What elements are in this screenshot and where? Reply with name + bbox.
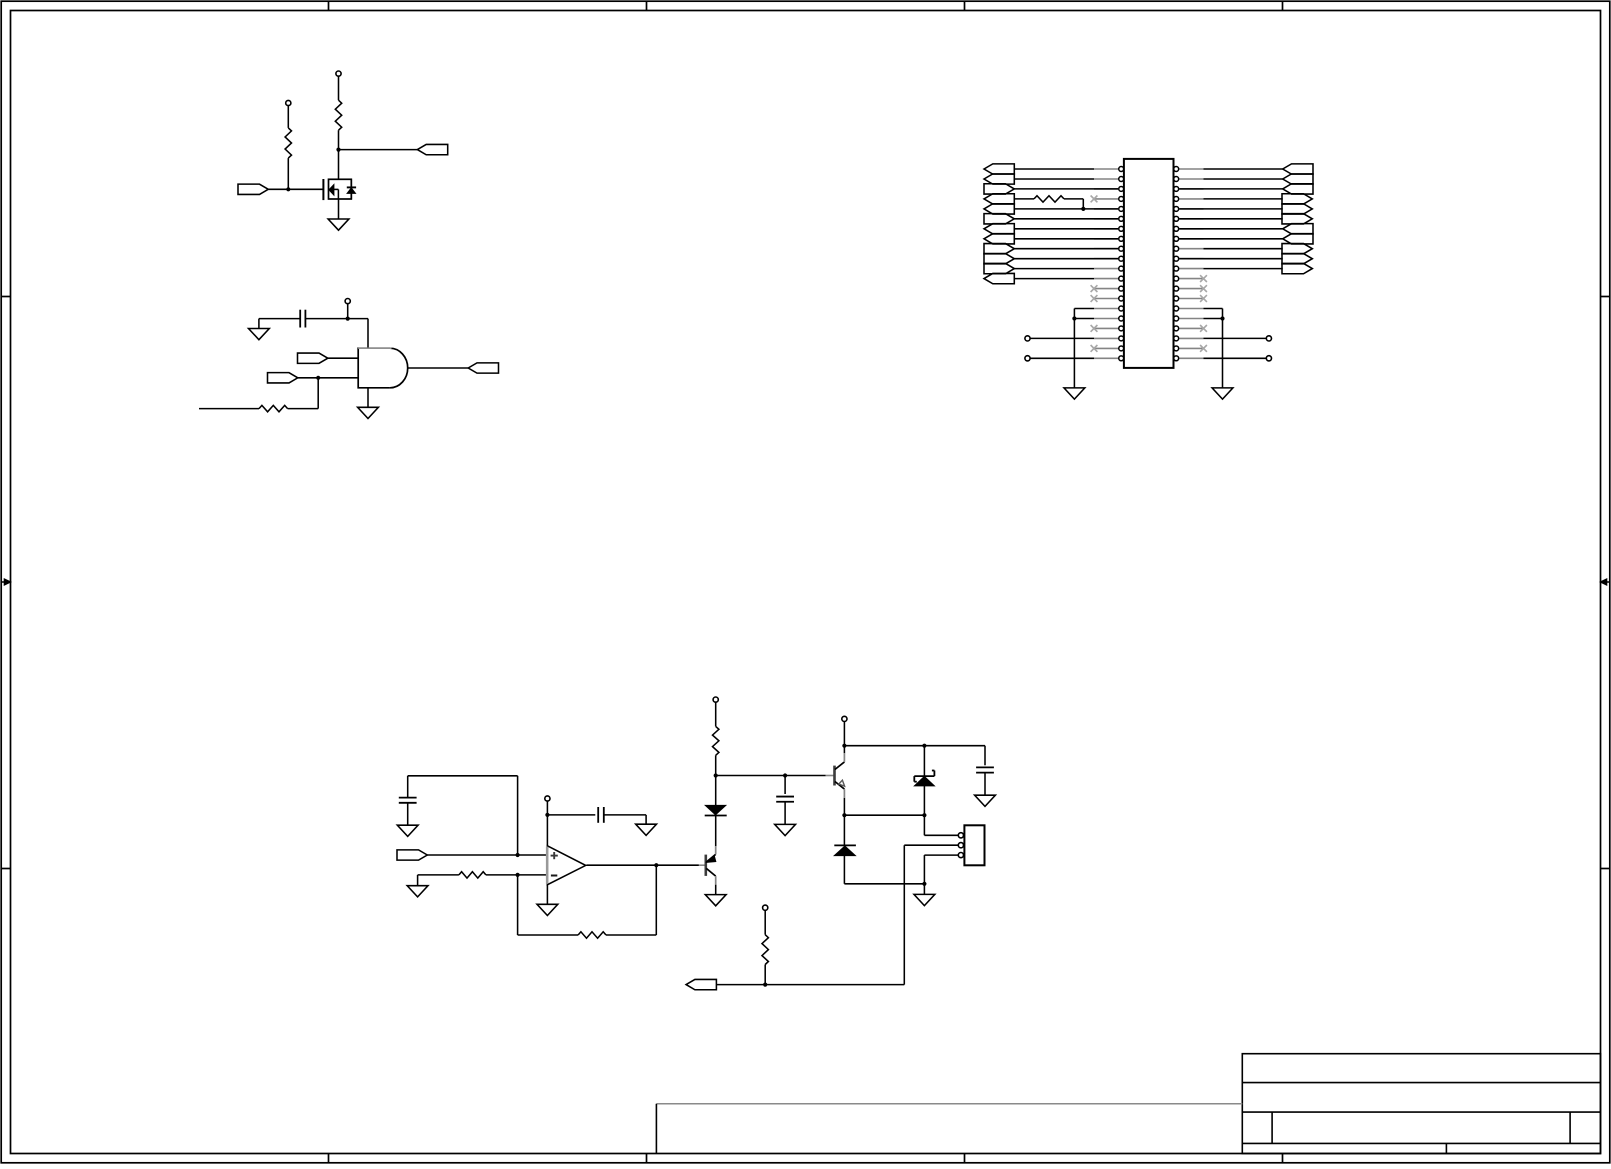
wire node E3 to node Z2 [844,814,924,816]
transistor Q1 source arrow [329,185,334,196]
wire left flag 1 to U2 [1014,168,1094,170]
wire left flag 10 to U2 [1014,258,1118,260]
power pin P3 [345,299,350,304]
node B2 junction [783,773,787,777]
U2 right pin 12 circle [1174,276,1179,281]
U2 right pin 9 circle [1174,246,1179,251]
wire node B1 to node B2 [716,775,785,777]
wire U1 output [408,367,469,369]
node left gnd rail junction [1072,316,1076,320]
wire right flag 3 to U2 [1179,188,1283,190]
right border mid arrow [1602,581,1610,583]
no-connect X left pin 19 [1091,345,1098,352]
right port flag row 8 [1283,234,1313,244]
wire J1 pin3 down [924,854,958,856]
top border zone tick 2 [646,1,648,10]
wire VIN to U3 +in [427,854,547,856]
transistor Q3 collector (up) [835,762,845,770]
U2 right pin 2 stub [1179,178,1203,180]
U2 left pin 19 circle [1119,346,1124,351]
U2 left pin 3 stub [1094,188,1118,190]
wire right flag 9 to U2 [1204,248,1283,250]
U2 right pin 18 stub [1179,337,1203,339]
U2 right pin 18 circle [1174,336,1179,341]
transistor Q1 body diode [350,179,352,187]
wire Q1 source to ground [338,199,340,219]
wire corner to R3 [288,408,319,410]
terminal T4 circle [1266,356,1271,361]
op-amp U3 plus sign [551,855,558,857]
title block outline [1242,1054,1600,1154]
U2 right pin 19 circle [1174,346,1179,351]
wire right flag 1 to U2 [1204,168,1283,170]
U2 right pin 4 circle [1174,196,1179,201]
ground GND4 (U2 left) [1064,388,1085,399]
transistor Q2 base stub [699,864,705,866]
U2 left pin 15 stub [1094,308,1118,310]
U2 right pin 7 stub [1179,228,1203,230]
U2 right pin 20 stub [1179,357,1203,359]
wire left flag 3 to U2 [1014,188,1118,190]
U2 right pin 14 stub [1179,298,1203,300]
ground GND10 [705,895,726,906]
right port flag row 10 [1282,254,1312,264]
transistor Q2 emitter (up) [706,854,716,862]
right port flag row 4 [1282,194,1312,204]
wire left flag 9 to U2 [1014,248,1118,250]
wire P7 to R8 [764,910,766,934]
wire P1 to R1 [338,76,340,100]
U2 left pin 18 stub [1094,337,1118,339]
transistor Q1 gate bar [322,179,324,200]
wire right flag 8 to U2 [1179,238,1283,240]
U2 right pin 3 stub [1179,188,1203,190]
transistor Q3 emitter (down) [835,782,845,790]
connector J1 pin3 circle [958,853,963,858]
U2 left pin 4 stub [1094,198,1118,200]
wire node DRAIN to Q1 drain [338,150,340,180]
wire C1 to node VDD3 [305,318,347,320]
U2 left pin 17 circle [1119,326,1124,331]
wire Q2 emitter to D1 [715,816,717,847]
IC U2 body [1124,159,1174,368]
wire U2 right pin 15 to gnd rail [1204,308,1223,310]
left port flag row 2 [984,174,1014,184]
resistor R4 [1034,196,1064,202]
wire D2 to node Z2 [923,786,925,815]
node E3 junction [842,813,846,817]
no-connect X left pin 13 [1091,285,1098,292]
capacitor C4 [776,796,794,798]
U2 left pin 2 stub [1094,178,1118,180]
U2 right pin 10 stub [1179,258,1203,260]
wire P5 to R7 [715,702,717,726]
U2 right pin 7 circle [1174,226,1179,231]
top border zone tick 3 [964,1,966,10]
U2 left pin 12 stub [1094,278,1118,280]
U2 right pin 8 stub [1179,238,1203,240]
no-connect X right pin 17 [1200,325,1207,332]
U2 left pin 2 circle [1119,177,1124,182]
U2 right pin 6 circle [1174,216,1179,221]
U2 left pin 14 circle [1119,296,1124,301]
wire left flag 8 to U2 [1014,238,1118,240]
top border zone tick 1 [328,1,330,10]
wire R1 to node DRAIN [338,130,340,149]
bottom port flag CTRL [686,979,716,989]
ground GND9 [537,904,558,915]
U2 left pin 15 circle [1119,306,1124,311]
U2 left pin 16 circle [1119,316,1124,321]
wire node IN2 down [317,378,319,409]
wire U3 power up [546,801,548,846]
no-connect X right pin 14 [1200,295,1207,302]
no-connect X left pin 17 [1091,325,1098,332]
right border zone tick 1 [1601,296,1610,298]
left port flag row 12 [984,273,1014,283]
U2 right pin 1 stub [1179,168,1203,170]
title block divider row1 [1242,1082,1600,1084]
wire node B2 to Q3 base [785,775,826,777]
capacitor C5 [976,766,994,768]
wire R4 to corner [1064,198,1083,200]
U2 left pin 19 stub [1094,347,1118,349]
node R4/row5 junction [1081,207,1085,211]
wire right flag 6 to U2 [1179,218,1283,220]
no-connect X right pin 19 [1200,345,1207,352]
node Z2 junction [922,813,926,817]
ground GND8 [636,824,657,835]
U2 right pin 2 circle [1174,177,1179,182]
right port flag row 3 [1283,184,1313,194]
power pin P6 [842,716,847,721]
left port flag row 9 [984,244,1014,254]
notes box left edge [655,1104,657,1154]
bottom border zone tick 1 [328,1154,330,1163]
U2 right pin 19 stub [1179,347,1203,349]
U2 left pin 12 circle [1119,276,1124,281]
node GATE junction [286,187,290,191]
wire C2 top to node INP [407,776,409,798]
transistor Q3 base stub [826,775,834,777]
node INP junction [516,853,520,857]
ground GND13 [914,894,935,905]
node VCC3 junction [545,813,549,817]
wire R7 to node B1 [715,755,717,775]
U2 right pin 16 stub [1179,318,1203,320]
node INN junction [516,873,520,877]
bottom border zone tick 3 [964,1154,966,1163]
wire U2 left pin 16 to gnd rail [1074,318,1094,320]
U2 left pin 6 circle [1119,216,1124,221]
left port flag row 4 [984,194,1014,204]
wire left flag 5 to U2 [1014,208,1118,210]
U2 left pin 5 circle [1119,206,1124,211]
U2 right pin 11 stub [1179,268,1203,270]
right port flag row 7 [1283,224,1313,234]
wire right flag 4 to U2 [1204,198,1283,200]
op-amp U3 minus sign [551,875,557,877]
wire U2 left pin 15 to gnd rail [1074,308,1094,310]
left border zone tick 1 [1,296,10,298]
no-connect X left pin 14 [1091,295,1098,302]
U2 left pin 5 stub [1094,208,1118,210]
U2 left pin 17 stub [1094,327,1118,329]
U2 left pin 10 circle [1119,256,1124,261]
AND gate U1 body [358,348,390,388]
U2 left pin 7 circle [1119,226,1124,231]
right port flag row 2 [1283,174,1313,184]
bottom border zone tick 2 [646,1154,648,1163]
capacitor C4 top wire [784,776,786,795]
ground GND5 (U2 right) [1212,388,1233,399]
wire node G13 to ground [923,884,925,895]
U2 left pin 14 stub [1094,298,1118,300]
U2 right pin 3 circle [1174,186,1179,191]
U2 right pin 13 stub [1179,288,1203,290]
capacitor C1 [299,310,301,328]
node OUT junction [654,863,658,867]
node B1 junction [714,773,718,777]
capacitor C3 [597,807,599,823]
wire D1 to node B1 [715,776,717,806]
transistor Q1 body box [329,179,352,199]
U2 left pin 9 circle [1119,246,1124,251]
wire C5 to ground [984,773,986,796]
U2 right pin 8 circle [1174,236,1179,241]
left port flag row 1 [984,164,1014,174]
wire U3 out to Q2 base [586,864,699,866]
U2 left pin 13 stub [1094,288,1118,290]
top border zone tick 4 [1282,1,1284,10]
right port flag row 1 [1283,164,1313,174]
transistor Q3 base bar [833,766,836,786]
right port flag row 5 [1282,204,1312,214]
left port flag row 5 [984,204,1014,214]
wire left flag 6 to U2 [1014,218,1118,220]
U2 left pin 6 stub [1094,218,1118,220]
power pin P7 [763,905,768,910]
resistor R7 [713,726,719,755]
U2 right pin 5 stub [1179,208,1203,210]
AND gate U1 top edge highlight [358,347,391,349]
input port flag VIN [397,850,427,860]
wire left flag 12 to U2 [1014,278,1094,280]
wire U2 right pin 18 to T3 [1204,337,1267,339]
connector J1 pin2 circle [958,843,963,848]
title block divider row3 [1242,1142,1600,1144]
resistor R6 (feedback) [578,932,606,938]
wire T2 to U2 left pin 20 [1030,357,1094,359]
op-amp U3 left edge highlight [546,847,548,884]
U2 right pin 5 circle [1174,206,1179,211]
U2 right pin 17 stub [1179,327,1203,329]
wire input flag to Q1 gate [268,188,323,190]
connector J1 pin1 circle [958,833,963,838]
no-connect X right pin 13 [1200,285,1207,292]
diode D1 [705,805,726,814]
riser wire J1 pin2 to bottom rail [903,845,905,984]
left border mid arrow [1,581,9,583]
wire right flag 7 to U2 [1179,228,1283,230]
wire node Z2 to J1 pin1 [923,815,925,835]
U2 left pin 18 circle [1119,336,1124,341]
U2 right pin 13 circle [1174,286,1179,291]
input port flag (gate net) [238,184,268,194]
no-connect X left pin 4 [1091,196,1098,203]
wire node INN down to R6 [517,875,519,935]
wire C4 to ground [784,802,786,825]
U2 left pin 8 stub [1094,238,1118,240]
title block divider row2 [1242,1111,1600,1113]
zener diode D2 [914,775,934,777]
bottom border zone tick 4 [1282,1154,1284,1163]
power pin P4 [545,796,550,801]
U2 left pin 20 stub [1094,357,1118,359]
U2 right pin 4 stub [1179,198,1203,200]
wire right flag 11 to U2 [1204,268,1283,270]
ground GND1 [328,219,349,230]
node IN2 junction [316,376,320,380]
wire J1 pin2 to riser [904,844,958,846]
resistor R1 [335,100,341,130]
U2 right pin 17 circle [1174,326,1179,331]
U2 left pin 11 stub [1094,268,1118,270]
notes box top edge [656,1103,1242,1105]
node C3a junction [842,744,846,748]
wire Q3 emitter to node E3 [843,798,845,815]
wire node VDD3 to U1 power [348,318,368,320]
wire U3 bottom to ground [546,884,548,904]
ground GND7 [407,886,428,897]
U2 right pin 14 circle [1174,296,1179,301]
transistor Q2 base bar [704,855,707,876]
node G13 junction [922,882,926,886]
wire T1 to U2 left pin 18 [1030,337,1094,339]
power pin P1 [336,71,341,76]
wire node DRAIN to output flag [339,149,418,151]
left port flag row 10 [984,254,1014,264]
resistor R3 [259,405,288,411]
U2 left pin 1 stub [1094,168,1118,170]
wire IN2 to U1 [298,377,358,379]
connector J1 body [964,825,984,865]
right port flag row 11 [1282,263,1312,273]
U2 left pin 9 stub [1094,248,1118,250]
title block bottom cell divider [1445,1143,1447,1153]
left port flag row 6 [984,214,1014,224]
node BOT junction [763,983,767,987]
wire U2 right pin 16 to gnd rail [1204,318,1223,320]
input port flag IN2 [268,373,298,383]
resistor R8 [762,935,768,965]
ground GND12 [975,795,996,806]
wire P3 to node VDD3 [347,304,349,319]
wire node C3a to node Z1 [844,745,924,747]
title block cell divider right [1569,1112,1571,1143]
U2 left pin 7 stub [1094,228,1118,230]
wire R5 to U3 -in [486,874,548,876]
left border zone tick 2 [1,868,10,870]
ground GND6 [397,825,418,836]
U2 left pin 16 stub [1094,318,1118,320]
wire R8 to node BOT [764,965,766,985]
left port flag row 11 [984,263,1014,273]
wire C3 to ground corner [604,814,646,816]
wire R6 to node OUT [606,934,656,936]
U2 right pin 1 circle [1174,167,1179,172]
right port flag row 6 [1282,214,1312,224]
ground GND2 [249,329,270,340]
wire U2 right pin 20 to T4 [1204,357,1267,359]
U2 right pin 11 circle [1174,266,1179,271]
U2 left pin 10 stub [1094,258,1118,260]
wire node Z1 to corner C5 [924,745,985,747]
wire right flag 5 to U2 [1179,208,1283,210]
output port flag OUT1 [468,363,498,373]
resistor R2 [285,128,291,158]
U2 left pin 8 circle [1119,236,1124,241]
power pin P2 [286,100,291,105]
node right gnd rail junction [1220,316,1224,320]
title block cell divider left [1271,1112,1273,1143]
ground GND11 [775,824,796,835]
U2 right pin 20 circle [1174,356,1179,361]
right port flag row 9 [1282,244,1312,254]
resistor R5 [459,872,486,878]
input port flag IN1 [298,353,328,363]
wire node E3 to D3 [843,815,845,845]
U2 right pin 9 stub [1179,248,1203,250]
wire R3 to left [199,408,259,410]
U2 right pin 15 circle [1174,306,1179,311]
U2 left pin 4 circle [1119,196,1124,201]
left port flag row 7 [984,224,1014,234]
wire left flag 4 to R4 [1014,198,1034,200]
wire R2 to node GATE [287,158,289,189]
node DRAIN junction [336,148,340,152]
U2 left pin 1 circle [1119,167,1124,172]
transistor Q2 collector (down) [706,868,716,876]
diode D3 [834,844,856,846]
terminal T1 circle [1025,336,1030,341]
U2 right pin 16 circle [1174,316,1179,321]
wire left flag 7 to U2 [1014,228,1118,230]
wire left flag 2 to U2 [1014,178,1094,180]
wire right flag 10 to U2 [1179,258,1283,260]
wire C1 to ground corner [259,318,300,320]
power pin P5 [713,697,718,702]
wire P6 to node C3a [843,722,845,754]
U2 left pin 11 circle [1119,266,1124,271]
wire right flag 2 to U2 [1204,178,1283,180]
U2 left pin 3 circle [1119,186,1124,191]
ground GND3 [358,407,379,418]
wire CTRL to riser [716,984,904,986]
U2 right pin 15 stub [1179,308,1203,310]
node VDD3 junction [346,317,350,321]
wire U1 ground pin [367,388,369,408]
wire GND7 to R5 [417,875,419,886]
U2 right pin 12 stub [1179,278,1203,280]
terminal T3 circle [1266,336,1271,341]
wire P2 to R2 [287,106,289,128]
wire C2 bottom to ground [407,803,409,825]
right border zone tick 2 [1601,868,1610,870]
wire Q2 collector to ground [715,885,717,895]
node Z1 junction [922,744,926,748]
op-amp U3 triangle [547,846,585,885]
